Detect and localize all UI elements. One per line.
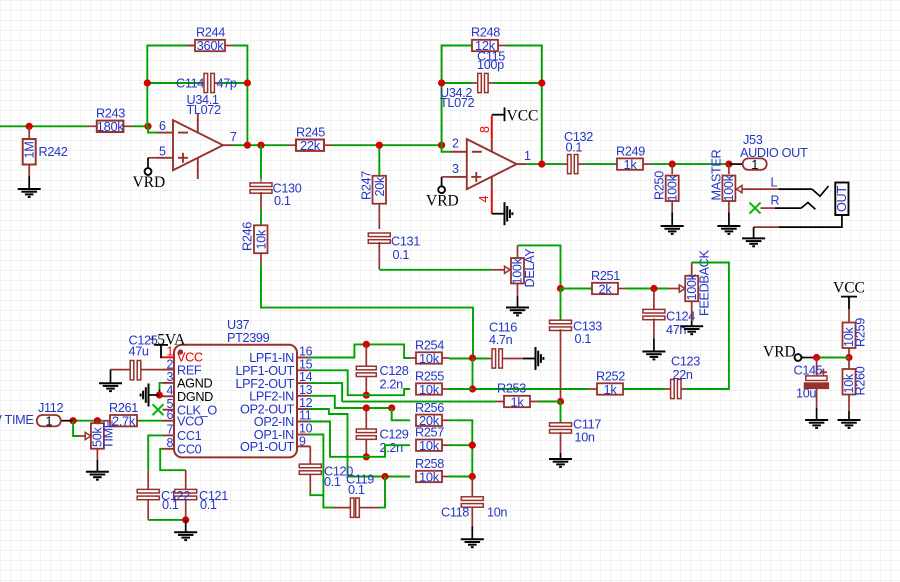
wire C131 to DELAY wiper: [379, 269, 492, 271]
wire feedback right vertical U34.1: [233, 46, 247, 146]
capacitor C130 0.1: [260, 145, 262, 179]
no-connect cross CLK_O: [153, 404, 164, 415]
node junction AGND/DGND: [156, 391, 163, 398]
svg-text:10n: 10n: [575, 431, 595, 445]
svg-text:3: 3: [452, 162, 459, 176]
wire C122 bottom to C121 bottom: [148, 519, 186, 521]
resistor R258 10k: [416, 471, 449, 482]
svg-text:VCC: VCC: [833, 280, 865, 297]
wire R245 to U34.2: [332, 144, 442, 146]
ground below MASTER: [717, 226, 740, 234]
capacitor C119 0.1: [334, 498, 379, 517]
capacitor C128 2.2n: [356, 344, 376, 395]
svg-text:100p: 100p: [477, 58, 504, 72]
svg-text:TL072: TL072: [440, 96, 475, 110]
svg-text:C123: C123: [671, 355, 700, 369]
wire feedback left vertical U34.1: [147, 46, 195, 127]
wire jack sleeve to ground: [779, 215, 842, 227]
node junction C121/C122 ground: [182, 516, 189, 523]
connector J112 pin 1: [61, 420, 73, 422]
svg-text:6: 6: [159, 119, 166, 133]
svg-text:2.2n: 2.2n: [380, 441, 404, 455]
wire R261 to J112: [73, 420, 103, 422]
resistor R243 180k: [87, 121, 133, 132]
svg-text:VCO: VCO: [177, 414, 204, 428]
wire U34.2 output: [526, 163, 564, 165]
wire R253 left long run: [342, 401, 496, 403]
svg-text:9: 9: [299, 434, 306, 448]
svg-text:CC0: CC0: [177, 443, 202, 457]
svg-text:13: 13: [299, 383, 313, 397]
capacitor C116 4.7n: [488, 349, 523, 368]
svg-text:CC1: CC1: [177, 429, 202, 443]
svg-text:1k: 1k: [603, 382, 617, 397]
jack ring contact R: [801, 203, 815, 210]
svg-text:6: 6: [167, 408, 174, 422]
capacitor C122 0.1: [137, 470, 159, 520]
svg-text:4: 4: [477, 196, 491, 203]
ground below C118: [461, 539, 484, 547]
svg-text:10k: 10k: [419, 351, 440, 366]
wire jack ring R: [761, 207, 776, 209]
IC U37 PT2399 body: [174, 345, 297, 458]
wire R256 right to common riser: [449, 420, 472, 476]
pin 8 power stub: [491, 116, 493, 140]
wire pin12 long run to R258: [309, 409, 410, 477]
svg-text:R250: R250: [653, 171, 667, 200]
svg-text:8: 8: [167, 436, 174, 450]
node junction R253 / C117: [557, 398, 564, 405]
wire DELAY top to R251 node: [518, 245, 561, 288]
svg-text:0.1: 0.1: [200, 498, 217, 512]
resistor R252 1k: [589, 383, 623, 394]
resistor R242 1M: [23, 126, 36, 176]
resistor R254 10k: [410, 352, 449, 363]
connector J53 AUDIO OUT pin 1: [729, 163, 743, 165]
wire R255 node to R252: [473, 388, 590, 390]
svg-text:L: L: [771, 176, 778, 190]
node junction TIME top: [94, 417, 101, 424]
wire CC1 to C122: [148, 435, 162, 470]
node junction R254 right: [469, 354, 476, 361]
svg-text:C117: C117: [573, 418, 601, 432]
svg-text:1M: 1M: [23, 142, 37, 159]
capacitor C131 0.1: [368, 233, 390, 270]
svg-text:10k: 10k: [419, 469, 440, 484]
svg-text:1k: 1k: [623, 157, 637, 172]
wire R246 down and across to LPF feed: [261, 264, 473, 358]
node junction U34.2 input: [438, 142, 445, 149]
svg-text:1: 1: [524, 149, 531, 163]
pin 1 marker dot: [178, 349, 183, 354]
ground below C124: [642, 352, 665, 360]
svg-text:360k: 360k: [197, 38, 225, 53]
svg-text:5: 5: [159, 145, 166, 159]
wire R243 to pin6 node: [133, 125, 148, 127]
svg-text:0.1: 0.1: [324, 475, 341, 489]
svg-text:11: 11: [299, 409, 312, 423]
capacitor C124 47n: [643, 289, 665, 339]
resistor R260 10k: [843, 358, 856, 412]
svg-text:R242: R242: [39, 145, 68, 159]
svg-text:47n: 47n: [666, 323, 686, 337]
resistor R247 20k: [378, 145, 380, 176]
node junction left C115: [438, 79, 445, 86]
capacitor C145 10u polarized: [804, 358, 828, 408]
wire op-amp output: [233, 144, 289, 146]
node junction R257 right: [469, 442, 476, 449]
svg-text:C129: C129: [380, 428, 409, 442]
svg-text:R: R: [771, 194, 780, 208]
svg-text:22k: 22k: [300, 138, 321, 153]
wire pin10 down to C119 row: [309, 435, 334, 508]
resistor R249 1k: [617, 158, 651, 169]
node junction C119 riser on R258 line: [381, 473, 388, 480]
wire R242 to ground: [28, 176, 30, 189]
potentiometer FEEDBACK 100k: [679, 263, 698, 322]
svg-text:REF: REF: [177, 363, 202, 377]
jack tip contact L: [812, 186, 829, 196]
svg-text:C131: C131: [391, 235, 420, 249]
ground sideways at pin 4: [492, 213, 505, 215]
svg-text:VCC: VCC: [177, 350, 203, 364]
wire pin11 to C129 bottom row to R257: [309, 422, 410, 457]
wire C120 bottom to C119 row: [310, 492, 323, 495]
ground below R250: [661, 226, 684, 234]
svg-text:47u: 47u: [129, 345, 149, 359]
svg-text:OP2-IN: OP2-IN: [254, 415, 294, 429]
wire pin15 to R255: [309, 370, 410, 395]
wire R249 to J53: [651, 163, 729, 165]
capacitor C118 10n: [461, 477, 483, 527]
svg-text:V TIME: V TIME: [0, 413, 33, 427]
ground below TIME: [86, 472, 109, 480]
wire R253 right to node: [538, 401, 561, 403]
svg-text:0.1: 0.1: [393, 248, 410, 262]
wire pin14 jog to R253 line: [309, 383, 343, 402]
svg-text:LPF2-IN: LPF2-IN: [249, 390, 294, 404]
capacitor C133 0.1: [550, 289, 572, 402]
svg-text:DELAY: DELAY: [523, 248, 537, 288]
potentiometer TIME 50k: [85, 421, 104, 460]
node junction TIME wiper tap: [70, 417, 77, 424]
svg-text:VRD: VRD: [763, 344, 796, 361]
node junction C124 tap: [650, 285, 657, 292]
jack sleeve box OUT: [835, 183, 848, 216]
node junction MASTER tap: [725, 161, 732, 168]
svg-text:PT2399: PT2399: [227, 331, 270, 345]
svg-text:2: 2: [452, 137, 459, 151]
wire C114 row: [147, 82, 198, 84]
resistor R261 2.7k: [103, 415, 139, 426]
wire to R251: [561, 288, 593, 290]
svg-text:OP1-OUT: OP1-OUT: [240, 440, 295, 454]
supply VRD at pin 5: [148, 157, 157, 159]
svg-text:J53: J53: [743, 133, 763, 147]
svg-text:U37: U37: [227, 318, 250, 332]
node junction output feedback: [244, 142, 251, 149]
node junction C129 bottom: [363, 453, 370, 460]
wire VCO to R261: [139, 420, 163, 422]
wire vertical R254-R255 junctions: [472, 358, 474, 389]
resistor R250 100k: [666, 164, 679, 212]
svg-text:R247: R247: [360, 171, 374, 200]
node junction C145 tap: [813, 354, 820, 361]
svg-text:J112: J112: [38, 401, 63, 415]
resistor R256 20k: [416, 415, 449, 426]
ground below FEEDBACK: [680, 326, 703, 334]
node junction VRD divider: [845, 354, 852, 361]
svg-text:100k: 100k: [666, 174, 680, 201]
svg-text:10k: 10k: [255, 229, 269, 249]
ground below C117: [549, 459, 572, 467]
wire feedback left vertical U34.2: [442, 46, 472, 146]
svg-text:2.7k: 2.7k: [112, 414, 136, 429]
wire jog down to pin 6: [148, 126, 157, 132]
pin 4 power stub: [491, 189, 493, 213]
svg-text:FEEDBACK: FEEDBACK: [698, 250, 712, 316]
wire feedback right vertical U34.2: [506, 46, 542, 165]
resistor R245 22k: [289, 140, 332, 151]
node junction R250 tap: [669, 161, 676, 168]
svg-text:8: 8: [478, 126, 492, 133]
wire R251 to FEEDBACK wiper: [626, 288, 668, 290]
resistor R251 2k: [592, 283, 626, 294]
svg-text:R259: R259: [854, 318, 868, 347]
svg-text:47p: 47p: [217, 77, 237, 91]
wire riser to R256: [392, 408, 410, 420]
wire VRD to divider: [813, 357, 849, 359]
node junction at R242 tap: [26, 123, 33, 130]
capacitor C117 10n: [550, 402, 572, 454]
svg-text:C118: C118: [441, 506, 469, 520]
svg-text:R260: R260: [854, 366, 868, 395]
svg-text:VCC: VCC: [507, 108, 539, 125]
svg-text:1k: 1k: [510, 394, 524, 409]
resistor R259 10k: [843, 309, 856, 357]
node junction right C115: [538, 79, 545, 86]
svg-text:7: 7: [167, 423, 174, 437]
wire C116 row from R254: [449, 358, 488, 360]
resistor R248 12k: [472, 40, 506, 51]
ground sideways at AGND: [141, 384, 149, 407]
potentiometer DELAY 100k: [505, 245, 525, 295]
ground below R242: [18, 189, 41, 197]
capacitor C115 100p: [472, 73, 494, 92]
wire input net from left edge: [0, 125, 87, 127]
wire R252 to C123: [623, 388, 665, 390]
svg-text:20k: 20k: [373, 176, 387, 196]
node junction R256 riser: [388, 404, 395, 411]
wire MASTER wiper to jack tip L: [742, 188, 779, 190]
svg-text:10n: 10n: [487, 506, 507, 520]
node junction R258 right: [469, 473, 476, 480]
wire C132 to R249: [584, 163, 617, 165]
ground below C145: [805, 420, 828, 428]
svg-text:4.7n: 4.7n: [489, 333, 513, 347]
svg-text:0.1: 0.1: [575, 332, 592, 346]
capacitor C123 22n: [665, 379, 685, 398]
wire jog down to pin 2: [442, 145, 451, 152]
wire C115 row: [442, 82, 472, 84]
capacitor C129 2.2n: [356, 408, 376, 457]
capacitor C125 47u on REF: [111, 361, 163, 380]
wire pin16 to R254: [309, 344, 410, 358]
svg-text:C114: C114: [176, 77, 204, 91]
ground below jack: [742, 238, 765, 246]
op-amp U34.1 TL072: [157, 114, 233, 179]
node junction right C114: [244, 79, 251, 86]
svg-text:0.1: 0.1: [566, 141, 583, 155]
svg-text:VRD: VRD: [426, 193, 459, 210]
node junction left C114: [144, 79, 151, 86]
svg-text:VRD: VRD: [133, 174, 166, 191]
ground below C125: [99, 383, 122, 391]
node junction output U34.2: [538, 161, 545, 168]
svg-text:C145: C145: [794, 364, 823, 378]
svg-text:180k: 180k: [97, 119, 125, 134]
svg-text:2k: 2k: [598, 281, 612, 296]
wire AGND DGND to ground: [160, 383, 163, 390]
svg-text:7: 7: [230, 130, 237, 144]
svg-text:TIME: TIME: [102, 420, 116, 449]
svg-text:22n: 22n: [673, 368, 693, 382]
node junction pin6 feedback: [144, 123, 151, 130]
wire FEEDBACK top loop to C123: [685, 263, 729, 390]
svg-text:10k: 10k: [419, 438, 440, 453]
svg-text:3: 3: [167, 370, 174, 384]
svg-text:10: 10: [299, 422, 313, 436]
pin 1 VCC stub and +5VA supply: [161, 356, 174, 358]
svg-text:2.2n: 2.2n: [380, 378, 404, 392]
ground below DELAY: [506, 308, 529, 316]
ground sideways at C116: [536, 347, 544, 370]
node junction output C130 tap: [257, 142, 264, 149]
resistor R244 360k: [187, 40, 233, 51]
svg-text:1: 1: [45, 414, 52, 429]
svg-text:0.1: 0.1: [274, 194, 291, 208]
svg-text:4: 4: [167, 384, 174, 398]
capacitor C132 0.1: [564, 155, 584, 174]
op-amp U34.2 TL072: [451, 139, 526, 189]
wire CC0 to C121: [160, 449, 186, 470]
node junction C128 bottom: [363, 392, 370, 399]
svg-text:AGND: AGND: [177, 377, 212, 391]
wire C119 right up to R258 line: [379, 477, 385, 508]
svg-text:0.1: 0.1: [348, 483, 365, 497]
ground below R260: [838, 420, 861, 428]
potentiometer MASTER 100k: [722, 164, 742, 212]
svg-text:DGND: DGND: [177, 390, 213, 404]
resistor R246 10k: [260, 210, 262, 225]
capacitor C121 0.1: [175, 470, 197, 520]
supply VCC at pin 8: [492, 107, 505, 121]
svg-text:OUT: OUT: [835, 186, 849, 212]
node junction C129 top: [363, 404, 370, 411]
IC pin stubs right: [297, 358, 309, 435]
svg-text:AUDIO OUT: AUDIO OUT: [740, 146, 808, 160]
svg-text:C128: C128: [380, 364, 409, 378]
node junction R251 left: [557, 285, 564, 292]
ground below C121: [174, 532, 197, 540]
svg-text:C124: C124: [666, 310, 695, 324]
no-connect cross on R line: [750, 203, 761, 214]
IC pin stubs left: [163, 370, 175, 449]
svg-text:TL072: TL072: [187, 103, 222, 117]
capacitor C120 0.1: [297, 446, 321, 492]
resistor R257 10k: [416, 440, 449, 451]
node junction R255 right: [469, 385, 476, 392]
capacitor C114 47p: [198, 73, 220, 92]
svg-text:10u: 10u: [796, 387, 816, 401]
supply VRD at pin 3: [441, 177, 443, 187]
svg-text:R246: R246: [241, 222, 255, 251]
svg-text:100k: 100k: [722, 174, 736, 201]
resistor R253 1k: [496, 396, 538, 407]
svg-text:10k: 10k: [419, 382, 440, 397]
wire pin13 jog to C129 line: [309, 396, 392, 408]
node junction C128 top: [363, 341, 370, 348]
resistor R255 10k: [416, 383, 449, 394]
svg-text:0.1: 0.1: [162, 498, 179, 512]
